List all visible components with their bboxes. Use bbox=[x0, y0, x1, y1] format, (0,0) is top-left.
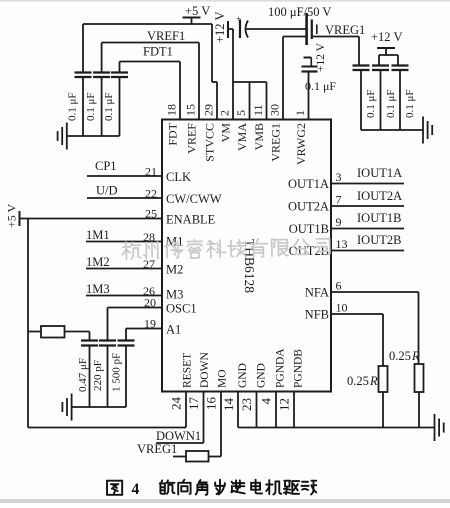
wire pin 20 OSC1 bbox=[108, 308, 163, 341]
C6 value label bbox=[111, 353, 123, 392]
capacitor C9 0.1uF electrolytic on pin 1 bbox=[302, 58, 318, 72]
pin 13 label OUT2B bbox=[289, 244, 329, 258]
wire ground rail top-right bbox=[361, 129, 423, 131]
svg-text:DOWN: DOWN bbox=[199, 352, 211, 388]
pin 22 label CW/CWW bbox=[166, 192, 222, 206]
capacitor C11 0.1uF bbox=[372, 66, 389, 131]
C10 value label bbox=[365, 89, 377, 118]
svg-text:+12 V: +12 V bbox=[315, 42, 327, 72]
pin 2 number bbox=[218, 110, 232, 116]
net label FDT1 bbox=[143, 45, 173, 59]
svg-text:10: 10 bbox=[336, 301, 348, 315]
wire U/D to pin 22 bbox=[87, 197, 162, 199]
wire pin 1 stub bbox=[308, 72, 310, 120]
svg-text:CLK: CLK bbox=[166, 170, 191, 184]
net label VREF1 bbox=[147, 29, 185, 43]
svg-text:IOUT2A: IOUT2A bbox=[357, 189, 402, 203]
svg-text:13: 13 bbox=[336, 237, 348, 251]
capacitor C8 100uF/50V bbox=[307, 13, 317, 45]
svg-text:M3: M3 bbox=[166, 288, 183, 302]
wire pin 3 OUT1A bbox=[331, 183, 404, 185]
capacitor C3 0.1uF bbox=[111, 62, 128, 137]
wire +5V to pin 25 ENABLE bbox=[20, 218, 163, 220]
net label U/D bbox=[96, 184, 118, 198]
pin 25 number bbox=[145, 207, 157, 221]
pin 17 number bbox=[186, 397, 201, 411]
pin 4 label PGNDA bbox=[275, 348, 287, 388]
pin 26 number bbox=[143, 284, 155, 298]
pin 7 number bbox=[336, 193, 342, 207]
capacitor C1 0.1uF bbox=[75, 24, 92, 136]
pin 3 label OUT1A bbox=[288, 177, 329, 191]
wire pin 5 VMA stub bbox=[249, 82, 251, 120]
svg-text:VREG1: VREG1 bbox=[137, 442, 177, 456]
ground (top-left) bbox=[58, 123, 67, 150]
net label VREG1 (bottom) bbox=[137, 442, 177, 456]
pin 27 number bbox=[143, 257, 155, 271]
net label IOUT1B bbox=[357, 211, 401, 225]
wire pin 13 OUT2B bbox=[331, 250, 404, 252]
svg-text:MO: MO bbox=[217, 369, 229, 388]
pin 15 number bbox=[184, 104, 198, 116]
svg-text:VM: VM bbox=[219, 123, 233, 143]
resistor R2 and wire pin 16 MO to VREG1 bbox=[173, 392, 221, 462]
svg-text:FDT: FDT bbox=[166, 122, 180, 145]
svg-text:+: + bbox=[236, 14, 241, 24]
pin 12 label PGNDB bbox=[293, 349, 305, 388]
pin 14 number bbox=[221, 398, 236, 412]
pin 4 number bbox=[259, 398, 274, 405]
svg-text:25: 25 bbox=[145, 207, 157, 221]
wire +5V rail down-left bbox=[27, 219, 29, 428]
C11 value label bbox=[385, 89, 397, 118]
pin 27 label M2 bbox=[166, 263, 183, 277]
pin 9 number bbox=[336, 215, 342, 229]
capacitor C4 0.47uF bbox=[81, 341, 98, 408]
svg-text:M2: M2 bbox=[166, 263, 183, 277]
wire pin 23 GND stub bbox=[256, 392, 258, 428]
svg-text:7: 7 bbox=[336, 193, 342, 207]
svg-text:CP1: CP1 bbox=[95, 159, 117, 173]
net label IOUT2A bbox=[357, 189, 402, 203]
svg-text:ENABLE: ENABLE bbox=[166, 213, 216, 227]
net label DOWN1 bbox=[156, 429, 201, 443]
pin 21 number bbox=[145, 165, 157, 179]
svg-text:VREG1: VREG1 bbox=[269, 123, 283, 162]
resistor R1 bbox=[28, 326, 90, 341]
svg-text:RESET: RESET bbox=[182, 353, 194, 388]
power +12V symbol (right) bbox=[371, 30, 402, 55]
svg-text:DOWN1: DOWN1 bbox=[156, 429, 201, 443]
wire pin 14 GND stub bbox=[237, 392, 239, 428]
svg-text:NFA: NFA bbox=[305, 286, 329, 300]
resistor R3 0.25R (NFB) bbox=[379, 366, 388, 428]
svg-text:21: 21 bbox=[145, 165, 157, 179]
pin 15 label VREF bbox=[185, 123, 199, 154]
svg-text:NFB: NFB bbox=[305, 308, 329, 322]
pin 20 label OSC1 bbox=[166, 302, 197, 316]
ground (top-right) bbox=[423, 117, 432, 144]
svg-text:4: 4 bbox=[132, 481, 140, 498]
capacitor C12 0.1uF bbox=[392, 66, 409, 131]
svg-text:R: R bbox=[369, 374, 378, 388]
net label CP1 bbox=[95, 159, 117, 173]
svg-text:0.25: 0.25 bbox=[389, 349, 411, 363]
pin 16 number bbox=[204, 397, 219, 411]
C5 value label bbox=[92, 360, 104, 391]
net label 1M3 bbox=[86, 282, 110, 296]
pin 21 label CLK bbox=[166, 170, 191, 184]
svg-text:29: 29 bbox=[202, 104, 216, 116]
pin 19 number bbox=[144, 317, 156, 331]
pin 30 label VREG1 bbox=[269, 123, 283, 162]
net label 1M1 bbox=[86, 228, 110, 242]
pin 3 number bbox=[336, 170, 342, 184]
svg-text:GND: GND bbox=[256, 363, 268, 388]
svg-text:0.1 μF: 0.1 μF bbox=[67, 92, 79, 121]
wire VM-VMA-VMB jumper bbox=[233, 81, 267, 83]
svg-text:19: 19 bbox=[144, 317, 156, 331]
wire pin 9 OUT1B bbox=[331, 228, 404, 230]
wire ground rail bottom-right bbox=[238, 427, 435, 429]
watermark text bbox=[122, 237, 330, 260]
svg-text:A1: A1 bbox=[166, 323, 181, 337]
pin 12 number bbox=[277, 398, 292, 411]
svg-text:24: 24 bbox=[169, 397, 184, 411]
pin 30 number bbox=[268, 104, 282, 116]
net label IOUT1A bbox=[357, 166, 402, 180]
wire pin 4 PGNDA stub bbox=[275, 392, 277, 428]
svg-text:1M1: 1M1 bbox=[86, 228, 110, 242]
svg-text:FDT1: FDT1 bbox=[143, 45, 173, 59]
C2 value label bbox=[85, 92, 97, 121]
pin 14 label GND bbox=[237, 363, 249, 388]
svg-text:9: 9 bbox=[336, 215, 342, 229]
svg-text:0.47 μF: 0.47 μF bbox=[77, 358, 89, 392]
net label 1M2 bbox=[86, 255, 110, 269]
wire +5V to pin 29 STVCC bbox=[83, 24, 217, 120]
svg-text:VRWG2: VRWG2 bbox=[294, 123, 308, 165]
svg-text:VMA: VMA bbox=[235, 123, 249, 151]
svg-text:22: 22 bbox=[145, 187, 157, 201]
svg-text:0.1 μF: 0.1 μF bbox=[103, 92, 115, 121]
pin 10 number bbox=[336, 301, 348, 315]
C9 value label 0.1uF bbox=[305, 79, 336, 93]
svg-text:23: 23 bbox=[239, 398, 254, 411]
pin 19 label A1 bbox=[166, 323, 181, 337]
wire pin 30 VREG1 to C8 bbox=[283, 37, 307, 120]
wire FDT1 to pin 18 bbox=[120, 62, 181, 120]
svg-text:IOUT1B: IOUT1B bbox=[357, 211, 401, 225]
svg-text:VREF: VREF bbox=[185, 123, 199, 154]
pin 6 number bbox=[336, 279, 342, 293]
power +12V symbol (top, rotated) bbox=[213, 12, 233, 43]
svg-text:+12 V: +12 V bbox=[371, 30, 402, 44]
wire pin 12 PGNDB stub bbox=[293, 392, 295, 428]
svg-text:12: 12 bbox=[277, 398, 292, 411]
svg-text:28: 28 bbox=[143, 230, 155, 244]
R3 value label bbox=[347, 374, 378, 388]
svg-text:0.1 μF: 0.1 μF bbox=[385, 89, 397, 118]
pin 11 label VMB bbox=[252, 123, 266, 150]
net label IOUT2B bbox=[357, 233, 401, 247]
svg-text:0.1 μF: 0.1 μF bbox=[404, 89, 416, 118]
svg-text:OUT1B: OUT1B bbox=[289, 222, 329, 236]
C9 +12V label bbox=[315, 42, 327, 72]
svg-text:CW/CWW: CW/CWW bbox=[166, 192, 222, 206]
pin 20 number bbox=[144, 296, 156, 310]
pin 7 label OUT2A bbox=[288, 200, 329, 214]
pin 11 number bbox=[251, 104, 265, 116]
op-amp U1 THB6128 chip body bbox=[162, 120, 331, 392]
svg-text:0.25: 0.25 bbox=[347, 374, 369, 388]
svg-text:R: R bbox=[411, 349, 420, 363]
pin 17 label DOWN bbox=[199, 352, 211, 388]
wire pin 6 NFA bbox=[331, 292, 419, 364]
svg-text:16: 16 bbox=[204, 397, 219, 411]
pin 2 label VM bbox=[219, 123, 233, 143]
pin 18 label FDT bbox=[166, 122, 180, 145]
figure caption 图4 title bbox=[107, 480, 316, 498]
pin 23 number bbox=[239, 398, 254, 411]
pin 18 number bbox=[165, 104, 179, 116]
svg-text:2: 2 bbox=[218, 110, 232, 116]
C12 value label bbox=[404, 89, 416, 118]
wire 1M2 to pin 27 bbox=[86, 268, 162, 270]
wire CP1 to pin 21 bbox=[87, 175, 162, 177]
svg-text:1: 1 bbox=[293, 110, 307, 116]
pin 29 label STVCC bbox=[203, 123, 217, 162]
ground (bottom-right) bbox=[435, 414, 444, 441]
svg-text:OUT2A: OUT2A bbox=[288, 200, 329, 214]
svg-text:0.1 μF: 0.1 μF bbox=[365, 89, 377, 118]
pin 23 label GND bbox=[256, 363, 268, 388]
power +5V symbol (left, rotated) bbox=[5, 203, 20, 228]
wire pin 24 RESET to +5V rail bbox=[28, 392, 186, 428]
wire 1M3 to pin 26 bbox=[86, 295, 162, 297]
svg-text:30: 30 bbox=[268, 104, 282, 116]
svg-text:OUT1A: OUT1A bbox=[288, 177, 329, 191]
svg-text:0.1 μF: 0.1 μF bbox=[305, 79, 336, 93]
svg-text:OSC1: OSC1 bbox=[166, 302, 197, 316]
C4 value label bbox=[77, 358, 89, 392]
wire pin 2 VM stub bbox=[232, 29, 234, 120]
svg-text:U/D: U/D bbox=[96, 184, 118, 198]
C1 value label bbox=[67, 92, 79, 121]
capacitor C2 0.1uF bbox=[93, 43, 110, 137]
capacitor C10 0.1uF bbox=[353, 66, 370, 131]
svg-text:20: 20 bbox=[144, 296, 156, 310]
svg-text:15: 15 bbox=[184, 104, 198, 116]
svg-text:+5 V: +5 V bbox=[185, 4, 210, 18]
pin 6 label NFA bbox=[305, 286, 329, 300]
svg-text:220 pF: 220 pF bbox=[92, 360, 104, 391]
pin 25 label ENABLE bbox=[166, 213, 216, 227]
svg-text:14: 14 bbox=[221, 398, 236, 412]
wire ground rail top-left bbox=[67, 135, 120, 137]
pin 16 label MO bbox=[217, 369, 229, 388]
svg-text:11: 11 bbox=[251, 104, 265, 116]
svg-text:100 μF/50 V: 100 μF/50 V bbox=[268, 5, 331, 19]
C3 value label bbox=[103, 92, 115, 121]
capacitor C5 220pF bbox=[99, 341, 116, 408]
svg-text:+5 V: +5 V bbox=[5, 203, 19, 228]
wire +12V rail to C8 bbox=[247, 28, 307, 30]
wire pin 11 VMB stub bbox=[266, 82, 268, 120]
svg-text:VREF1: VREF1 bbox=[147, 29, 185, 43]
svg-text:27: 27 bbox=[143, 257, 155, 271]
svg-text:18: 18 bbox=[165, 104, 179, 116]
svg-text:4: 4 bbox=[259, 398, 274, 405]
pin 5 label VMA bbox=[235, 123, 249, 151]
pin 1 number bbox=[293, 110, 307, 116]
pin 5 number bbox=[234, 110, 248, 116]
power +5V symbol (top) bbox=[183, 4, 211, 24]
svg-text:PGNDB: PGNDB bbox=[293, 349, 305, 388]
wire pin 17 DOWN1 bbox=[156, 392, 204, 444]
svg-text:GND: GND bbox=[237, 363, 249, 388]
pin 1 label VRWG2 bbox=[294, 123, 308, 165]
svg-text:6: 6 bbox=[336, 279, 342, 293]
pin 24 label RESET bbox=[182, 353, 194, 388]
pin 10 label NFB bbox=[305, 308, 329, 322]
resistor R4 0.25R (NFA) bbox=[415, 364, 424, 428]
svg-text:1 500 pF: 1 500 pF bbox=[111, 353, 123, 392]
pin 9 label OUT1B bbox=[289, 222, 329, 236]
svg-text:1M2: 1M2 bbox=[86, 255, 110, 269]
capacitor C6 1500pF bbox=[118, 341, 135, 408]
C8 value label 100uF/50V bbox=[268, 5, 331, 19]
wire 1M1 to pin 28 bbox=[86, 241, 162, 243]
wire +12V bracket to C11 C12 bbox=[379, 55, 398, 66]
svg-text:VMB: VMB bbox=[252, 123, 266, 150]
ground (bottom-left) bbox=[62, 394, 71, 421]
wire ground rail bottom-left bbox=[72, 406, 126, 408]
wire pin 10 NFB bbox=[331, 314, 383, 366]
svg-text:IOUT1A: IOUT1A bbox=[357, 166, 402, 180]
svg-text:IOUT2B: IOUT2B bbox=[357, 233, 401, 247]
svg-text:STVCC: STVCC bbox=[203, 123, 217, 162]
U1 part number THB6128 bbox=[242, 239, 257, 293]
pin 29 number bbox=[202, 104, 216, 116]
R4 value label bbox=[389, 349, 420, 363]
wire pin 7 OUT2A bbox=[331, 205, 404, 207]
svg-text:5: 5 bbox=[234, 110, 248, 116]
pin 24 number bbox=[169, 397, 184, 411]
svg-text:+12 V: +12 V bbox=[213, 12, 227, 43]
pin 26 label M3 bbox=[166, 288, 183, 302]
svg-text:3: 3 bbox=[336, 170, 342, 184]
svg-text:PGNDA: PGNDA bbox=[275, 348, 287, 388]
pin 22 number bbox=[145, 187, 157, 201]
pin 13 number bbox=[336, 237, 348, 251]
wire pin 19 A1 bbox=[126, 329, 162, 341]
net label VREG1 (top) bbox=[325, 23, 365, 37]
svg-text:17: 17 bbox=[186, 397, 201, 411]
svg-text:VREG1: VREG1 bbox=[325, 23, 365, 37]
pin 28 number bbox=[143, 230, 155, 244]
svg-text:1M3: 1M3 bbox=[86, 282, 110, 296]
svg-text:0.1 μF: 0.1 μF bbox=[85, 92, 97, 121]
pin 28 label M1 bbox=[166, 235, 183, 249]
wire VREF1 to pin 15 bbox=[102, 43, 199, 120]
capacitor C7 electrolytic inline bbox=[236, 14, 248, 38]
wire VREG1 net to C10 bbox=[312, 37, 359, 66]
